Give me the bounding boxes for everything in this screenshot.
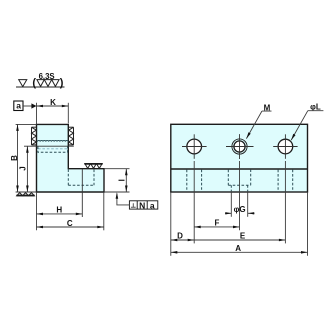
hidden pocket in step <box>68 169 94 185</box>
svg-text:B: B <box>10 155 19 161</box>
svg-text:D: D <box>177 232 183 241</box>
hidden recess rectangle <box>38 146 68 152</box>
dimension E <box>194 239 285 241</box>
circle c2 threaded <box>232 139 247 154</box>
svg-text:E: E <box>240 232 246 241</box>
dimension F <box>194 226 239 228</box>
pocket centerline <box>81 169 83 217</box>
circle c1 <box>187 139 202 154</box>
svg-text:a: a <box>16 101 21 111</box>
dimension I <box>125 169 127 192</box>
extension lines H C <box>36 192 38 230</box>
finish triangles in parens <box>37 80 44 87</box>
extension line bottom edge left <box>16 191 37 193</box>
edge extension lines A <box>170 192 172 256</box>
dimension J <box>26 146 28 192</box>
extension lines K <box>36 103 38 125</box>
svg-text:H: H <box>56 206 62 215</box>
hole c3 hidden lines <box>277 170 279 192</box>
tolerance frame <box>129 200 157 210</box>
dimension A <box>171 251 308 253</box>
svg-text:6.3S: 6.3S <box>39 72 55 81</box>
bottom finish triangles <box>17 193 23 196</box>
light hidden line <box>38 148 68 150</box>
right view body <box>171 124 308 192</box>
datum a box <box>14 101 23 111</box>
thread scallop row <box>37 140 68 141</box>
surface finish note underline <box>16 86 65 88</box>
svg-text:(: ( <box>32 77 36 89</box>
svg-text:I: I <box>117 179 126 181</box>
left view body fill <box>37 124 105 192</box>
step top finish triangles <box>85 164 91 169</box>
svg-text:K: K <box>50 98 56 107</box>
dimension D <box>171 239 194 241</box>
serration strip right <box>69 127 74 145</box>
dimension phiG <box>225 212 232 214</box>
svg-text:φG: φG <box>234 205 246 214</box>
dimension B <box>17 124 19 192</box>
svg-text:F: F <box>215 218 220 227</box>
surface finish triangle <box>19 80 27 87</box>
svg-text:a: a <box>150 200 155 210</box>
svg-text:): ) <box>60 77 64 89</box>
left view outline <box>37 124 105 192</box>
tolerance leader <box>117 194 129 205</box>
thread bottom reference line <box>24 145 74 147</box>
serration strip left <box>32 127 37 145</box>
svg-text:C: C <box>67 219 73 228</box>
svg-text:N: N <box>139 200 145 210</box>
hole c2 hidden counterbore <box>228 170 250 186</box>
svg-text:A: A <box>235 244 241 253</box>
dimension H <box>37 213 83 215</box>
dimension C <box>37 226 104 228</box>
circle c3 <box>278 139 293 154</box>
centerline extensions below view <box>193 161 195 243</box>
datum leader <box>23 105 33 107</box>
extension lines I <box>104 168 130 170</box>
svg-text:J: J <box>18 166 27 170</box>
phiG extension lines <box>230 191 232 216</box>
dimension K <box>37 105 69 107</box>
hole c1 hidden lines <box>186 170 188 192</box>
step line <box>171 168 308 170</box>
extension line top edge left <box>16 123 37 125</box>
